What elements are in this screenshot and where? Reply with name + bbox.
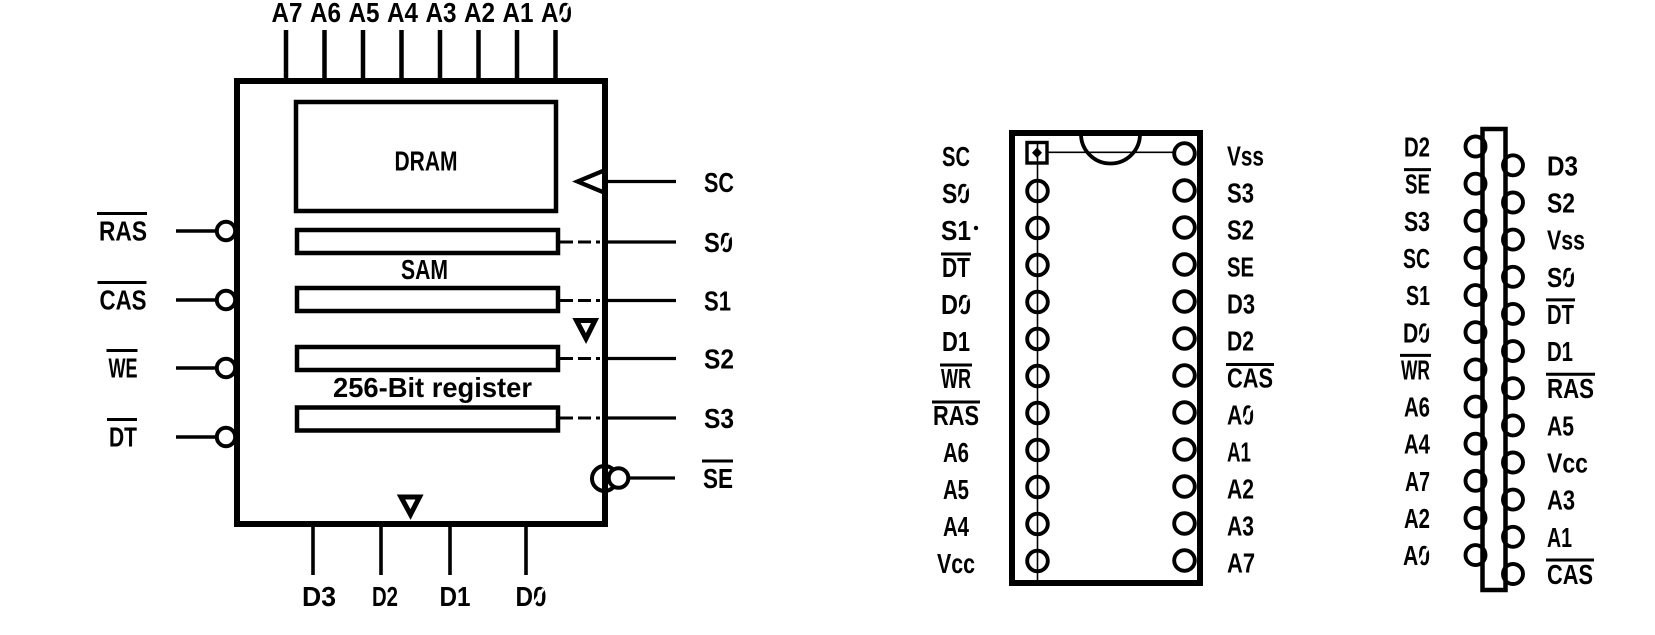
svg-text:DT: DT [109, 422, 137, 453]
DIP pin 22 pad [1174, 217, 1195, 238]
wire DT (left lead) [176, 435, 218, 439]
ZIP pin label DT (right) [1546, 298, 1575, 301]
ZIP pin pad right row 2 (S2) [1503, 193, 1523, 213]
DIP pin 18 pad [1174, 365, 1195, 386]
svg-text:A1: A1 [1227, 437, 1251, 468]
svg-text:DT: DT [1547, 299, 1574, 330]
svg-text:SC: SC [704, 167, 734, 198]
DIP pin 19 pad [1174, 328, 1195, 349]
DIP pin label WR (pin 7) [940, 364, 972, 367]
DT inversion bubble [217, 428, 235, 446]
svg-text:A4: A4 [387, 0, 418, 28]
svg-text:SC: SC [1403, 243, 1430, 274]
svg-text:CAS: CAS [100, 285, 147, 316]
DIP pin label DT (pin 4) [941, 253, 971, 256]
ZIP pin pad left row 3 (S3) [1466, 211, 1486, 231]
wire S3 dash-dot (register to edge) [560, 417, 603, 420]
svg-text:A2: A2 [1227, 474, 1254, 505]
ZIP pin pad right row 10 (A3) [1503, 490, 1523, 510]
pin D3 lead (bottom) [311, 524, 315, 575]
DIP pin 16 pad [1174, 439, 1195, 460]
svg-text:D0: D0 [516, 581, 547, 612]
DIP pin 8 pad [1027, 403, 1048, 424]
svg-text:D3: D3 [302, 581, 336, 612]
wire S2 dash-dot (register to edge) [560, 357, 603, 360]
pin A0 lead (top) [553, 30, 558, 84]
svg-text:D0: D0 [941, 289, 971, 320]
pin label CAS (active low) [98, 281, 147, 284]
svg-text:S3: S3 [1227, 178, 1254, 209]
svg-text:D3: D3 [1227, 289, 1255, 320]
svg-text:D3: D3 [1547, 150, 1578, 181]
ZIP pin pad right row 6 (D1) [1503, 341, 1523, 361]
DIP package body [1012, 133, 1200, 583]
chip outline (block diagram body) [237, 81, 605, 524]
pin label RAS (active low) [97, 212, 147, 215]
SAM register row 2 [297, 347, 558, 370]
SAM register row 0 [297, 230, 558, 253]
ZIP pin pad right row 5 (DT) [1503, 304, 1523, 324]
svg-text:DRAM: DRAM [395, 146, 458, 177]
ZIP pin pad right row 9 (Vcc) [1503, 453, 1523, 473]
pin A7 lead (top) [284, 30, 289, 84]
wire S1 dash-dot (register to edge) [560, 299, 603, 302]
svg-text:A3: A3 [426, 0, 457, 28]
DIP pin 1 pad (square) [1027, 143, 1047, 164]
svg-text:S2: S2 [704, 344, 734, 375]
svg-text:D1: D1 [942, 326, 970, 357]
svg-text:Vss: Vss [1227, 141, 1264, 172]
pin D0 lead (bottom) [524, 524, 528, 575]
svg-text:CAS: CAS [1227, 363, 1273, 394]
DIP scan fold line (horizontal) [1047, 151, 1174, 153]
ZIP pin pad left row 8 (A6) [1466, 397, 1486, 417]
DIP index notch [1081, 134, 1140, 164]
pin A3 lead (top) [438, 30, 443, 84]
svg-text:WR: WR [1401, 354, 1430, 385]
pin A1 lead (top) [515, 30, 520, 84]
buffer symbol (right, near S2) [577, 321, 596, 339]
svg-text:S3: S3 [1404, 206, 1430, 237]
pin A5 lead (top) [361, 30, 366, 84]
svg-text:S1: S1 [704, 286, 731, 317]
wire S1 [605, 299, 676, 302]
DIP pin 9 pad [1027, 440, 1048, 461]
DIP pin 12 pad [1027, 551, 1048, 572]
ZIP pin pad right row 12 (CAS) [1503, 564, 1523, 584]
DIP pin 2 pad [1027, 181, 1048, 202]
svg-text:D2: D2 [1227, 326, 1254, 357]
DIP pin 10 pad [1027, 477, 1048, 498]
svg-text:A5: A5 [943, 474, 969, 505]
svg-text:S3: S3 [704, 403, 734, 434]
pin label DT (active low) [107, 418, 137, 421]
wire SE [629, 476, 676, 479]
pin label WE (active low) [107, 349, 138, 352]
svg-text:D1: D1 [1547, 336, 1573, 367]
svg-text:A4: A4 [1404, 429, 1430, 460]
DIP S1 stray dot [974, 226, 978, 230]
SE inversion bubble (inner) [609, 468, 629, 488]
wire SC (shaft) [606, 180, 676, 183]
DIP pin 6 pad [1027, 329, 1048, 350]
svg-text:S0: S0 [704, 227, 733, 258]
svg-text:A1: A1 [1547, 522, 1572, 553]
svg-text:SE: SE [703, 463, 733, 494]
DIP pin 17 pad [1174, 402, 1195, 423]
pin A6 lead (top) [322, 30, 327, 84]
ZIP pin pad left row 6 (D0) [1466, 322, 1486, 342]
svg-text:DT: DT [942, 252, 970, 283]
svg-text:D2: D2 [1404, 132, 1430, 163]
svg-text:A5: A5 [349, 0, 380, 28]
svg-text:A7: A7 [272, 0, 303, 28]
DIP scan fold line (vertical) [1037, 143, 1039, 580]
ZIP pin pad right row 11 (A1) [1503, 527, 1523, 547]
pin D2 lead (bottom) [379, 524, 383, 575]
ZIP pin label CAS (right) [1546, 558, 1594, 561]
svg-text:SAM: SAM [401, 254, 448, 285]
ZIP pin label WR (left) [1400, 354, 1431, 357]
svg-text:A3: A3 [1227, 511, 1254, 542]
svg-text:A7: A7 [1405, 466, 1430, 497]
svg-text:A7: A7 [1227, 548, 1255, 579]
svg-text:A6: A6 [310, 0, 341, 28]
wire S2 [605, 357, 676, 360]
ZIP pin pad left row 12 (A0) [1466, 545, 1486, 565]
svg-text:Vss: Vss [1547, 225, 1585, 256]
SAM register row 3 [297, 408, 558, 431]
svg-text:A6: A6 [1404, 392, 1430, 423]
DIP pin 14 pad [1174, 513, 1195, 534]
RAS inversion bubble [217, 222, 235, 240]
ZIP pin label SE (left) [1404, 168, 1431, 171]
DIP pin label RAS (pin 8) [932, 401, 980, 404]
svg-text:S0: S0 [1547, 262, 1575, 293]
svg-text:A2: A2 [464, 0, 495, 28]
ZIP pin pad right row 4 (S0) [1503, 267, 1523, 287]
DIP pin 13 pad [1174, 550, 1195, 571]
svg-text:A5: A5 [1547, 410, 1574, 441]
ZIP pin pad left row 2 (SE) [1466, 174, 1486, 194]
svg-text:CAS: CAS [1547, 559, 1593, 590]
WE inversion bubble [217, 359, 235, 377]
DIP pin 21 pad [1174, 254, 1195, 275]
svg-text:Vcc: Vcc [1547, 448, 1588, 479]
svg-text:A0: A0 [1227, 400, 1254, 431]
DIP pin 3 pad [1027, 218, 1048, 239]
svg-text:256-Bit register: 256-Bit register [333, 372, 532, 403]
ZIP package body [1483, 129, 1506, 590]
ZIP pin pad right row 3 (Vss) [1503, 230, 1523, 250]
svg-text:SE: SE [1405, 169, 1430, 200]
svg-text:S0: S0 [942, 178, 970, 209]
svg-text:D1: D1 [440, 581, 471, 612]
DIP pin 11 pad [1027, 514, 1048, 535]
svg-text:A3: A3 [1547, 485, 1575, 516]
DIP pin 23 pad [1174, 180, 1195, 201]
svg-text:SC: SC [942, 141, 970, 172]
ZIP pin pad left row 1 (D2) [1466, 137, 1486, 157]
svg-text:A0: A0 [541, 0, 572, 28]
svg-text:D2: D2 [372, 581, 398, 612]
ZIP pin pad left row 5 (S1) [1466, 285, 1486, 305]
SAM register row 1 [297, 288, 558, 311]
svg-text:RAS: RAS [1547, 373, 1594, 404]
ZIP pin pad right row 8 (A5) [1503, 415, 1523, 435]
svg-text:RAS: RAS [99, 216, 147, 247]
svg-text:A4: A4 [943, 511, 969, 542]
svg-text:S1: S1 [941, 215, 971, 246]
ZIP pin label RAS (right) [1546, 373, 1595, 376]
wire S0 [605, 240, 676, 243]
SC input arrowhead [578, 171, 605, 193]
ZIP pin pad left row 4 (SC) [1466, 248, 1486, 268]
DIP pin 20 pad [1174, 291, 1195, 312]
DIP pin 4 pad [1027, 255, 1048, 276]
pin label SE (active low) [702, 460, 733, 463]
DIP pin 1 index dot [1032, 148, 1042, 159]
buffer symbol (bottom center) [401, 497, 420, 515]
wire RAS (left lead) [176, 229, 218, 233]
CAS inversion bubble [217, 291, 235, 309]
svg-text:SE: SE [1227, 252, 1254, 283]
svg-text:S2: S2 [1227, 215, 1254, 246]
DIP pin label CAS (pin 18) [1226, 363, 1274, 366]
DIP pin 5 pad [1027, 292, 1048, 313]
ZIP pin pad right row 1 (D3) [1503, 155, 1523, 175]
svg-text:WE: WE [109, 353, 138, 384]
svg-text:A1: A1 [503, 0, 534, 28]
ZIP pin pad left row 10 (A7) [1466, 471, 1486, 491]
svg-text:Vcc: Vcc [937, 548, 975, 579]
pin A4 lead (top) [399, 30, 404, 84]
pin D1 lead (bottom) [448, 524, 452, 575]
wire WE (left lead) [176, 366, 218, 370]
svg-text:WR: WR [941, 363, 971, 394]
SE inversion bubble (outer, on chip edge) [592, 466, 617, 491]
ZIP pin pad right row 7 (RAS) [1503, 378, 1523, 398]
ZIP pin pad left row 11 (A2) [1466, 508, 1486, 528]
wire S0 dash-dot (register to edge) [560, 241, 603, 244]
svg-text:S2: S2 [1547, 187, 1575, 218]
svg-text:A0: A0 [1403, 540, 1430, 571]
svg-text:S1: S1 [1406, 280, 1430, 311]
DIP pin 15 pad [1174, 476, 1195, 497]
svg-text:A2: A2 [1404, 503, 1430, 534]
DRAM array block [296, 102, 556, 211]
svg-text:D0: D0 [1403, 317, 1430, 348]
svg-text:A6: A6 [943, 437, 969, 468]
DIP pin 7 pad [1027, 366, 1048, 387]
ZIP pin pad left row 7 (WR) [1466, 359, 1486, 379]
wire CAS (left lead) [176, 298, 218, 302]
wire S3 [605, 416, 676, 419]
ZIP pin pad left row 9 (A4) [1466, 434, 1486, 454]
pin A2 lead (top) [476, 30, 481, 84]
DIP pin 24 pad [1174, 143, 1195, 164]
svg-text:RAS: RAS [933, 400, 979, 431]
